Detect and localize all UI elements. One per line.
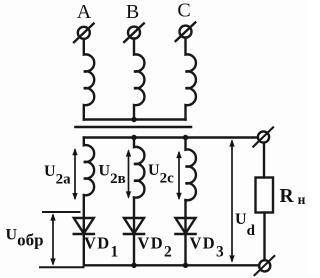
wire bottom bus [84, 264, 259, 266]
arrow U2c [176, 151, 181, 200]
terminal output top [253, 127, 273, 146]
junction dot bottom bus at phase c [183, 263, 188, 268]
svg-text:C: C [177, 0, 190, 22]
terminal C [176, 22, 196, 41]
terminal output bottom [255, 256, 275, 275]
primary winding A [84, 39, 94, 120]
resistor Rn [256, 178, 274, 213]
primary winding B [134, 39, 144, 120]
diode VD2 [124, 218, 144, 234]
wire secondary a to diode VD1 and bottom bus [83, 195, 85, 265]
primary winding C [186, 38, 196, 120]
wire bottom-left reference tick [40, 266, 84, 268]
secondary winding b [134, 138, 144, 198]
diode VD3 [176, 218, 196, 234]
wire terminal to resistor [263, 143, 265, 178]
wire secondary c to diode VD3 and bottom bus [184, 200, 186, 265]
terminal B [124, 23, 144, 42]
arrow U2b [126, 149, 131, 198]
junction dot primary bus at phase B [131, 117, 136, 122]
arrow Uobr [50, 213, 55, 265]
junction dot secondary bus at phase b [131, 135, 136, 140]
arrow U2a [72, 148, 77, 200]
secondary winding c [186, 138, 196, 201]
svg-text:A: A [77, 1, 92, 23]
transformer core [76, 126, 192, 129]
tick Uobr top reference [43, 211, 80, 213]
wire secondary bus [84, 136, 258, 138]
wire resistor to bottom terminal [263, 213, 265, 261]
terminal A [74, 24, 94, 43]
junction dot secondary bus at phase c [183, 135, 188, 140]
diode VD1 [74, 218, 94, 234]
junction dot bottom bus at phase b [131, 263, 136, 268]
wire primary star bus [84, 118, 186, 120]
secondary winding a [84, 138, 94, 196]
arrow Ud [229, 139, 234, 262]
wire secondary b to diode VD2 and bottom bus [133, 198, 135, 266]
svg-text:B: B [126, 1, 139, 23]
